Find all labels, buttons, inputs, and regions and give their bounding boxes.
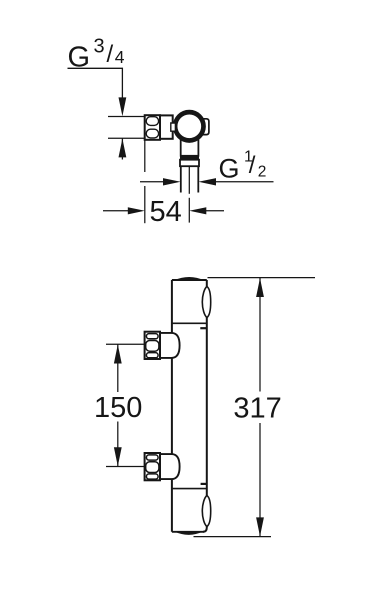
svg-text:3: 3: [94, 35, 105, 57]
svg-text:/: /: [249, 152, 256, 179]
svg-text:54: 54: [149, 196, 181, 228]
svg-text:150: 150: [94, 392, 142, 424]
svg-text:G: G: [219, 153, 240, 183]
svg-text:2: 2: [258, 163, 267, 180]
svg-text:/: /: [107, 41, 114, 68]
svg-text:317: 317: [233, 393, 281, 425]
svg-text:4: 4: [115, 47, 125, 67]
